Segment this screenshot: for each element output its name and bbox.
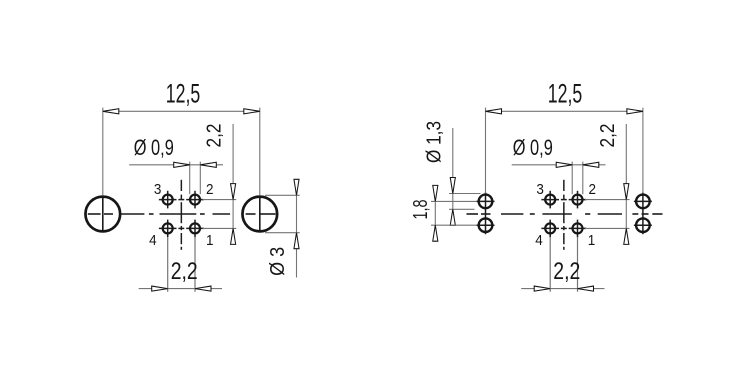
svg-text:3: 3	[154, 182, 162, 198]
svg-text:1: 1	[206, 233, 214, 249]
svg-text:3: 3	[536, 182, 544, 198]
svg-text:2: 2	[206, 182, 214, 198]
svg-text:1: 1	[588, 233, 596, 249]
svg-text:Ø 1,3: Ø 1,3	[423, 121, 445, 163]
svg-text:2,2: 2,2	[597, 124, 619, 148]
svg-text:Ø 3: Ø 3	[267, 247, 289, 276]
svg-text:Ø 0,9: Ø 0,9	[134, 135, 174, 160]
svg-text:2,2: 2,2	[171, 259, 198, 285]
svg-text:12,5: 12,5	[548, 78, 583, 108]
svg-text:4: 4	[149, 233, 157, 249]
svg-text:1,8: 1,8	[410, 200, 432, 220]
svg-text:Ø 0,9: Ø 0,9	[513, 135, 553, 160]
svg-text:4: 4	[535, 233, 543, 249]
svg-text:2: 2	[589, 182, 597, 198]
svg-text:12,5: 12,5	[166, 78, 201, 108]
svg-text:2,2: 2,2	[204, 124, 226, 148]
svg-text:2,2: 2,2	[553, 259, 580, 285]
